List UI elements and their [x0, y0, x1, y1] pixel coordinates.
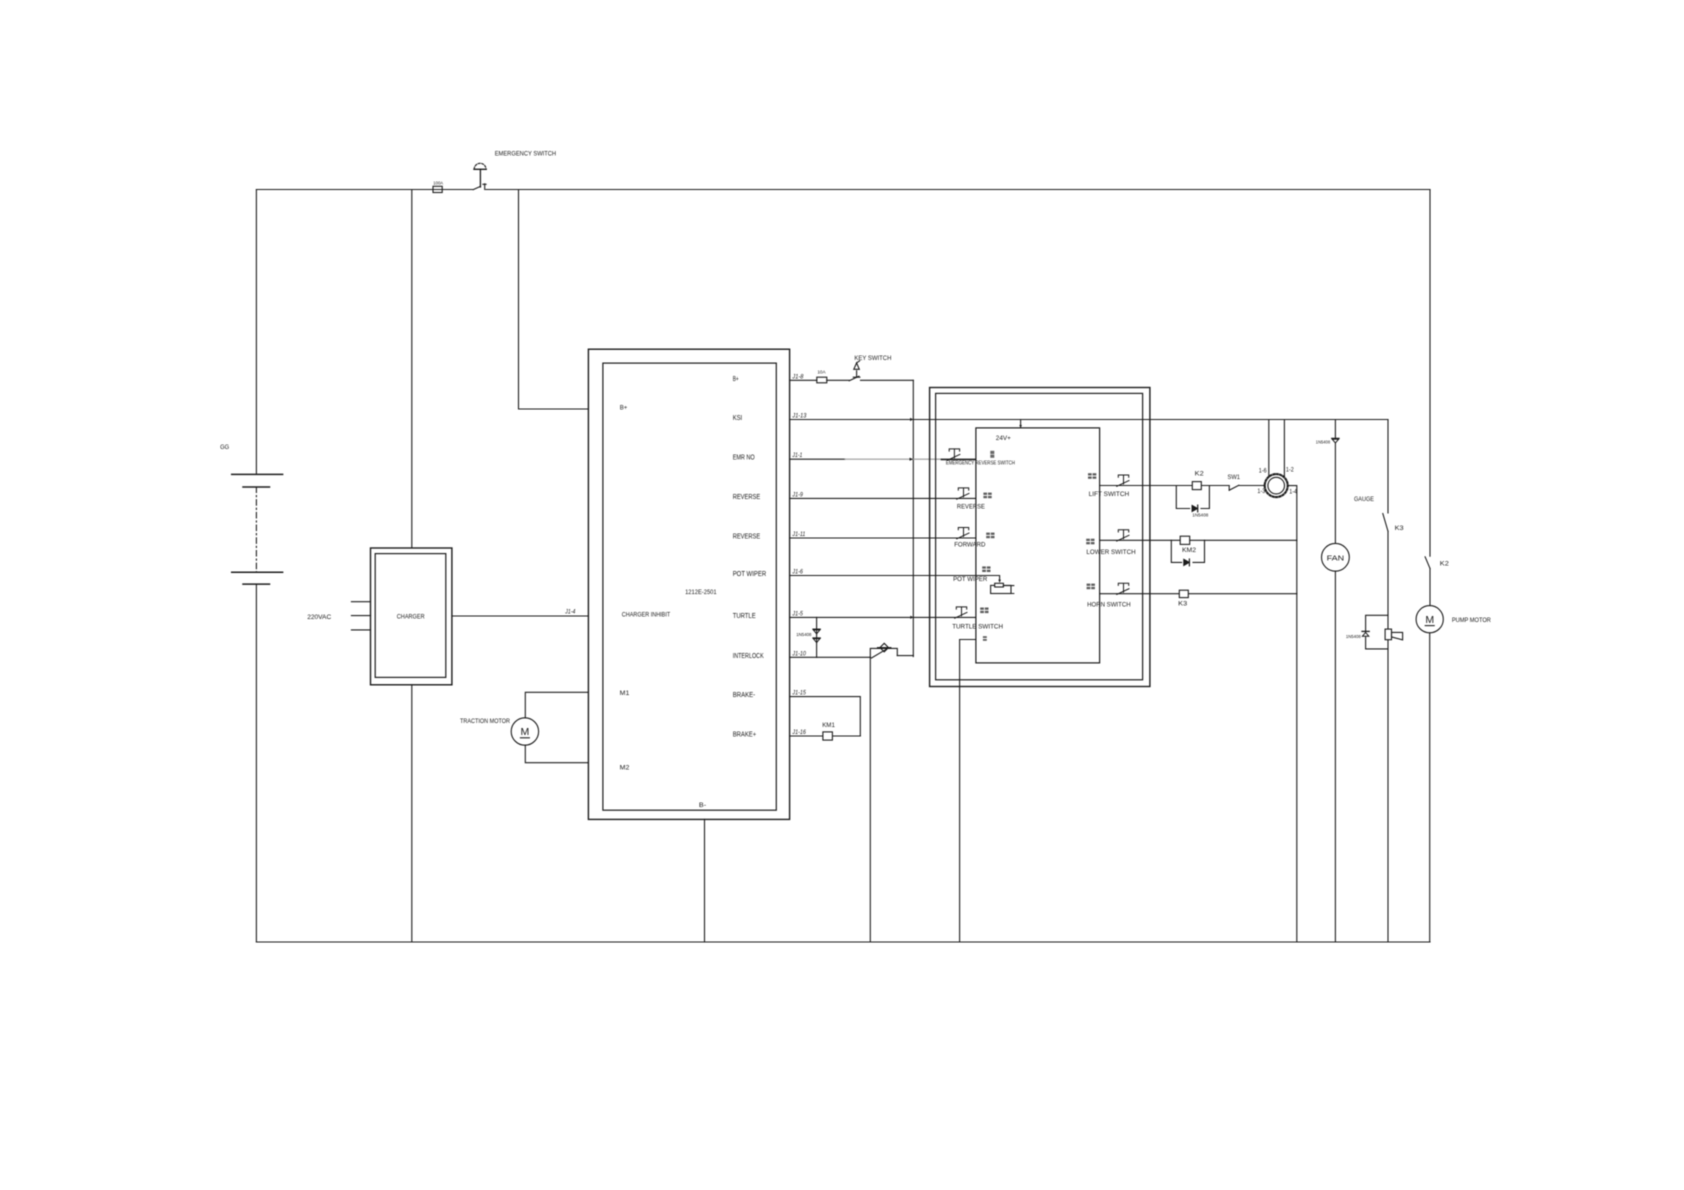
lift switch	[1117, 475, 1129, 486]
wire connector pins 1-6 1-2 top	[1269, 420, 1285, 477]
label K3 gauge	[1395, 525, 1404, 532]
diode KM2	[1171, 540, 1204, 566]
svg-text:M2: M2	[620, 764, 630, 771]
wire 220VAC input stubs	[351, 602, 370, 630]
label GG	[220, 444, 229, 451]
label B-	[699, 802, 706, 809]
svg-text:1-2: 1-2	[1286, 468, 1294, 474]
label cjk emergency	[990, 451, 994, 458]
fan FAN	[1322, 543, 1350, 571]
svg-text:1-6: 1-6	[1259, 469, 1267, 475]
diode 1N5408 K2	[1176, 486, 1209, 512]
pot wiper potentiometer	[991, 583, 1014, 593]
svg-text:FORWARD: FORWARD	[954, 541, 985, 548]
svg-text:J1-4: J1-4	[564, 609, 575, 615]
label cjk turtle	[980, 608, 988, 614]
label FORWARD	[954, 541, 985, 548]
svg-text:10A: 10A	[817, 370, 826, 376]
svg-text:K2: K2	[1440, 560, 1449, 567]
svg-text:K2: K2	[1195, 470, 1204, 477]
interlock switch	[870, 643, 913, 658]
wire connector 1-4 drop to bus	[1288, 486, 1297, 942]
diodes 1N5408 turtle branch	[813, 617, 820, 657]
svg-text:KEY SWITCH: KEY SWITCH	[854, 355, 891, 362]
label KEY SWITCH	[854, 355, 891, 362]
svg-text:B-: B-	[699, 802, 706, 809]
label M pump	[1425, 614, 1434, 626]
svg-text:J1-15: J1-15	[792, 691, 807, 697]
wire J1-9 REVERSE row	[790, 497, 975, 499]
wire J1-15 BRAKE-	[790, 697, 860, 736]
reverse switch	[957, 488, 969, 499]
fuse 100A	[433, 186, 442, 192]
wire tiller common return	[960, 640, 976, 943]
label M2	[620, 764, 630, 771]
svg-text:REVERSE: REVERSE	[733, 534, 761, 541]
label cjk horn	[1087, 584, 1095, 590]
label K2 pump	[1440, 560, 1449, 567]
label 1-3	[1257, 489, 1265, 495]
svg-text:TURTLE SWITCH: TURTLE SWITCH	[952, 623, 1003, 630]
connector CN1	[1265, 474, 1288, 497]
forward switch	[957, 528, 969, 539]
wire interlock to B- bus	[869, 657, 871, 942]
wire J1-13 KSI row	[790, 419, 1388, 421]
wire M2	[525, 745, 588, 763]
wire 24V+ drop into tiller unit	[1019, 420, 1022, 429]
svg-text:GAUGE: GAUGE	[1354, 496, 1374, 503]
label TURTLE SWITCH	[952, 623, 1003, 630]
wire B+ feed to controller	[519, 190, 589, 410]
wire J1-16 BRAKE+	[790, 735, 860, 737]
svg-text:CHARGER INHIBIT: CHARGER INHIBIT	[622, 612, 670, 619]
label 1212E-2501	[685, 589, 717, 596]
label HORN SWITCH	[1087, 602, 1131, 609]
junction arrow at KSI crossing	[910, 418, 913, 421]
label cjk lower	[1086, 539, 1094, 545]
tiller head box	[930, 388, 1150, 687]
label cjk reverse	[983, 493, 991, 499]
svg-text:1212E-2501: 1212E-2501	[685, 589, 717, 596]
pin labels J1	[791, 374, 807, 736]
wire horn row	[1100, 593, 1297, 595]
wire charger inhibit to controller J1-4	[452, 615, 589, 617]
horn switch	[1117, 583, 1129, 594]
svg-text:1N5408: 1N5408	[1316, 439, 1331, 445]
wire J1-10 INTERLOCK row	[790, 656, 870, 658]
battery GG	[232, 474, 283, 584]
label cjk lift	[1088, 473, 1096, 479]
label 1-2	[1286, 468, 1294, 474]
svg-text:100A: 100A	[433, 180, 444, 186]
label emergency reverse switch	[946, 460, 1015, 466]
svg-text:KSI: KSI	[733, 415, 743, 422]
wire left battery branch	[255, 190, 257, 943]
label B+ left	[620, 405, 628, 412]
svg-text:PUMP MOTOR: PUMP MOTOR	[1452, 617, 1491, 624]
svg-text:KM2: KM2	[1182, 547, 1196, 554]
svg-text:CHARGER: CHARGER	[397, 613, 425, 620]
svg-text:K3: K3	[1178, 600, 1187, 607]
wire lower row	[1100, 539, 1297, 541]
svg-text:TRACTION MOTOR: TRACTION MOTOR	[460, 718, 510, 725]
horn HA	[1385, 629, 1403, 640]
label 1N5408 turtle	[796, 632, 812, 638]
svg-text:J1-8: J1-8	[791, 374, 804, 380]
pump motor M	[1416, 606, 1443, 633]
emergency reverse switch	[948, 449, 960, 460]
svg-text:BRAKE+: BRAKE+	[733, 732, 757, 739]
label 1-6	[1259, 469, 1267, 475]
emergency switch	[473, 163, 486, 189]
label 1-4	[1289, 489, 1297, 495]
lower switch	[1117, 530, 1129, 541]
wire M1	[525, 692, 588, 718]
wire J1-5 TURTLE row	[790, 616, 975, 618]
wire fan branch	[1334, 420, 1336, 943]
wire lift row	[1100, 485, 1265, 487]
svg-text:REVERSE: REVERSE	[733, 494, 761, 501]
switch K2 pump	[1425, 557, 1430, 569]
label K2	[1195, 470, 1204, 477]
label 1N5408 fan diode	[1316, 439, 1331, 445]
fuse 10A	[817, 377, 827, 383]
svg-text:J1-6: J1-6	[792, 570, 804, 576]
svg-text:B+: B+	[733, 376, 739, 383]
wire gauge branch	[1387, 420, 1389, 943]
svg-text:GG: GG	[220, 444, 229, 451]
svg-text:LIFT SWITCH: LIFT SWITCH	[1089, 491, 1130, 498]
controller pin name labels	[733, 376, 767, 739]
contactor coil KM1	[823, 732, 833, 740]
svg-text:EMERGENCY REVERSE SWITCH: EMERGENCY REVERSE SWITCH	[946, 460, 1015, 466]
svg-text:1-4: 1-4	[1289, 489, 1297, 495]
label K3 coil	[1178, 600, 1187, 607]
svg-text:J1-11: J1-11	[792, 532, 806, 538]
svg-text:POT WIPER: POT WIPER	[953, 576, 987, 583]
diode 1N5408 horn	[1362, 615, 1388, 649]
svg-text:POT WIPER: POT WIPER	[733, 571, 767, 578]
label GAUGE	[1354, 496, 1374, 503]
wire controller B- drop	[704, 819, 706, 942]
label EMERGENCY SWITCH	[495, 151, 556, 158]
key switch	[849, 361, 860, 381]
svg-text:M1: M1	[620, 690, 630, 697]
label 1N5408 horn diode	[1346, 634, 1361, 640]
junction arrow at turtle crossing	[910, 616, 913, 619]
label cjk pot	[982, 566, 990, 572]
switch K3 gauge	[1383, 514, 1388, 532]
charger U2	[371, 548, 452, 685]
svg-text:TURTLE: TURTLE	[733, 613, 756, 620]
label 1N5408 K2	[1192, 513, 1208, 519]
label POT WIPER tiller	[953, 576, 987, 583]
label 10A	[817, 370, 826, 376]
svg-text:220VAC: 220VAC	[307, 614, 331, 621]
label TRACTION MOTOR	[460, 718, 510, 725]
svg-text:J1-1: J1-1	[792, 453, 803, 459]
svg-text:EMERGENCY SWITCH: EMERGENCY SWITCH	[495, 151, 556, 158]
label cjk forward	[986, 533, 994, 539]
diode 1N5408 fan	[1332, 438, 1339, 443]
wire J1-6 POT WIPER row	[790, 576, 1001, 583]
turtle switch	[955, 607, 967, 618]
label LIFT SWITCH	[1089, 491, 1130, 498]
svg-text:J1-16: J1-16	[792, 730, 807, 736]
wire key switch vertical (KSI feed)	[912, 380, 914, 656]
label M traction	[521, 726, 530, 738]
wire top B+ bus	[256, 189, 1430, 191]
relay coil K2	[1192, 482, 1201, 490]
label 100A	[433, 180, 444, 186]
wire pump branch	[1429, 190, 1431, 943]
contactor coil KM2	[1180, 536, 1190, 544]
wire bottom B- bus	[256, 941, 1430, 943]
svg-text:24V+: 24V+	[996, 435, 1011, 442]
wire J1-11 REVERSE row	[790, 537, 975, 539]
traction motor M	[511, 718, 538, 745]
label J1-4	[564, 609, 575, 615]
label SW1	[1228, 474, 1241, 481]
label CHARGER INHIBIT	[622, 612, 670, 619]
wire J1-8 to key switch	[790, 379, 913, 381]
label 24V+	[996, 435, 1011, 442]
svg-text:BRAKE-: BRAKE-	[733, 692, 756, 699]
svg-text:1N5408: 1N5408	[1192, 513, 1208, 519]
label CHARGER	[397, 613, 425, 620]
svg-text:J1-13: J1-13	[791, 414, 807, 420]
label KM1	[822, 722, 835, 729]
svg-text:J1-10: J1-10	[792, 651, 807, 657]
relay coil K3	[1179, 590, 1188, 597]
label cjk common	[983, 636, 987, 641]
wire charger top drop	[411, 190, 413, 549]
svg-text:1-3: 1-3	[1257, 489, 1265, 495]
svg-text:1N5408: 1N5408	[796, 632, 812, 638]
svg-text:1N5408: 1N5408	[1346, 634, 1361, 640]
svg-text:M: M	[521, 726, 530, 738]
svg-text:B+: B+	[620, 405, 628, 412]
svg-text:K3: K3	[1395, 525, 1404, 532]
svg-text:REVERSE: REVERSE	[957, 503, 985, 510]
wire J1-1 EMR NO row	[790, 458, 975, 461]
switch SW1	[1229, 485, 1239, 490]
svg-text:INTERLOCK: INTERLOCK	[733, 653, 764, 660]
label LOWER SWITCH	[1086, 549, 1135, 556]
label KM2	[1182, 547, 1196, 554]
label FAN	[1327, 553, 1345, 562]
label 220VAC	[307, 614, 331, 621]
svg-text:KM1: KM1	[822, 722, 835, 729]
wire charger bottom drop	[411, 685, 413, 942]
label REVERSE tiller	[957, 503, 985, 510]
label M1	[620, 690, 630, 697]
svg-text:LOWER SWITCH: LOWER SWITCH	[1086, 549, 1135, 556]
svg-text:J1-5: J1-5	[792, 611, 804, 617]
controller U1 1212E-2501	[588, 349, 789, 819]
svg-text:HORN SWITCH: HORN SWITCH	[1087, 602, 1131, 609]
svg-text:M: M	[1425, 614, 1434, 626]
svg-text:SW1: SW1	[1228, 474, 1241, 481]
label PUMP MOTOR	[1452, 617, 1491, 624]
svg-text:J1-9: J1-9	[792, 492, 804, 498]
svg-text:EMR NO: EMR NO	[733, 455, 755, 462]
svg-text:FAN: FAN	[1327, 553, 1345, 562]
